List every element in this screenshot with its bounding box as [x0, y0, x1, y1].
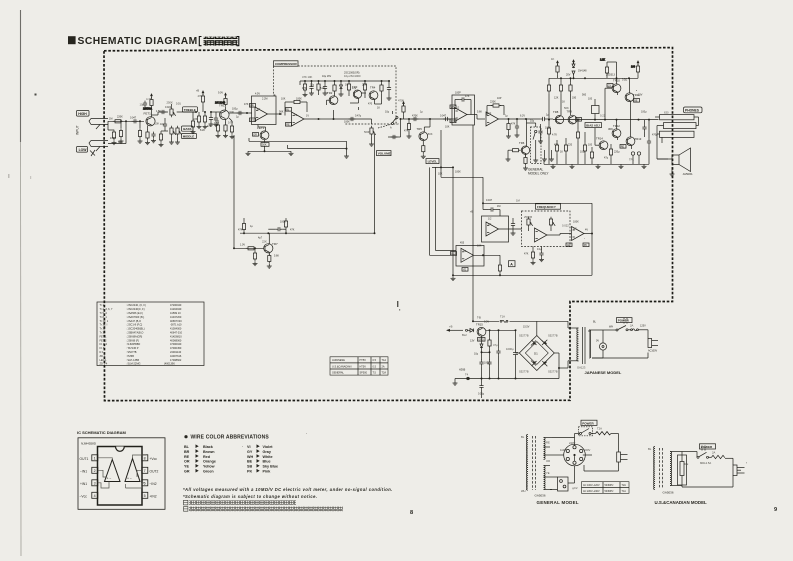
op-amp IC3b: [486, 222, 499, 236]
svg-text:6.2V: 6.2V: [520, 115, 525, 118]
svg-text:+ −: + −: [107, 477, 112, 481]
resistor R13: [216, 120, 221, 138]
wire IC4a out: [547, 234, 571, 236]
svg-text:470: 470: [368, 103, 373, 106]
resistor R29 fb: [487, 104, 504, 116]
japanese note 2: [184, 507, 344, 512]
svg-text:2SK68A: 2SK68A: [143, 108, 152, 111]
svg-text:: 2SC2240(C, F): : 2SC2240(C, F): [126, 307, 145, 311]
svg-text:BL: BL: [648, 447, 652, 451]
color list column 2: [247, 445, 278, 474]
resistor R44: [590, 147, 593, 164]
svg-text:47K: 47K: [244, 103, 249, 106]
svg-text:47000040: 47000040: [170, 342, 182, 346]
svg-text:4.7K: 4.7K: [146, 97, 152, 101]
svg-text:455: 455: [460, 242, 465, 245]
svg-text:ZD 1-4: ZD 1-4: [100, 361, 108, 365]
capacitor C8: [309, 80, 314, 95]
svg-text:5.6K: 5.6K: [477, 111, 482, 114]
resistor R35: [551, 57, 559, 78]
wire bridge left: [516, 352, 520, 354]
svg-text:8.2K: 8.2K: [200, 129, 205, 132]
svg-text:INPUT: INPUT: [76, 125, 80, 135]
wire output bus: [553, 114, 659, 121]
svg-text:1.0V: 1.0V: [240, 244, 245, 247]
transistor TR7: [264, 233, 278, 253]
svg-text:Green: Green: [203, 470, 214, 474]
svg-text:240V: 240V: [569, 441, 575, 445]
wire IC2b out: [499, 118, 541, 120]
svg-text:1K: 1K: [551, 57, 554, 61]
capacitor C9: [323, 80, 328, 95]
svg-text:POWER: POWER: [701, 445, 713, 449]
extra tone cluster parts: [159, 112, 235, 147]
op-amp IC1a: [255, 107, 268, 121]
capacitor C29: [479, 379, 483, 399]
svg-text:2.2K: 2.2K: [600, 59, 605, 62]
svg-text:220K: 220K: [117, 116, 123, 119]
op-amp IC4b: [572, 227, 585, 241]
wire feedback upper: [288, 145, 348, 150]
pin 2: [80, 467, 98, 473]
svg-text:−IN1: −IN1: [80, 469, 87, 473]
svg-text:WIRE COLOR ABBREVIATIONS: WIRE COLOR ABBREVIATIONS: [191, 435, 270, 441]
svg-text:1M: 1M: [109, 118, 112, 121]
svg-text:220μ: 220μ: [614, 151, 620, 154]
pot VR7 middle: [175, 126, 182, 144]
resistor R11 collector: [224, 92, 227, 110]
svg-text:S5277B: S5277B: [548, 334, 558, 338]
svg-text:LEVEL: LEVEL: [428, 160, 438, 164]
svg-text:MIDDLE: MIDDLE: [183, 135, 195, 139]
pin label: [450, 119, 456, 123]
svg-text:U.S.&CANADIAN MODEL: U.S.&CANADIAN MODEL: [655, 500, 708, 505]
transistor TR2: [327, 91, 338, 105]
svg-text:1/2: 1/2: [257, 107, 261, 111]
svg-text:: SLM-22MG: : SLM-22MG: [126, 361, 140, 365]
svg-text:8: 8: [410, 510, 413, 516]
transistor TR12: [608, 124, 621, 138]
taps net: [544, 438, 553, 490]
voltage selector VS1: [552, 438, 592, 466]
pin 8: [142, 455, 157, 461]
wire lower chain: [595, 119, 632, 149]
label 50K box: [261, 143, 269, 147]
resistor R31: [506, 149, 521, 162]
heading: [184, 435, 269, 441]
op-amp IC3a box: [456, 246, 484, 267]
wire reg out: [486, 329, 517, 331]
svg-text:0.022: 0.022: [165, 106, 172, 109]
svg-text:*Schematic diagram is subject: *Schematic diagram is subject to change …: [183, 494, 317, 499]
capacitor C21 input: [540, 117, 553, 121]
resistor R42: [576, 119, 579, 165]
svg-text:1/2: 1/2: [573, 227, 577, 231]
junction: [125, 120, 127, 122]
bridge rectifier D5: [519, 334, 558, 374]
svg-text:FET1: FET1: [144, 112, 152, 116]
resistor R8: [197, 112, 202, 129]
pot VR1 treble: [167, 101, 176, 118]
resistor R14 feedback: [285, 100, 307, 115]
dust specks: [8, 90, 747, 463]
capacitor C19: [539, 247, 544, 262]
label BIAS ADJ: [585, 123, 602, 128]
svg-text:YE: YE: [463, 268, 467, 271]
capacitor C27: [493, 330, 501, 378]
transformer T3 primary coil: [648, 447, 655, 490]
svg-text:RE: RE: [546, 441, 550, 445]
svg-text:5.6K: 5.6K: [274, 255, 279, 258]
transistor FET1: [144, 112, 160, 126]
svg-text:◎F2: ◎F2: [572, 486, 578, 490]
node A: [509, 261, 516, 267]
wire osc collector rail: [240, 232, 376, 234]
svg-text:D1: D1: [534, 352, 538, 356]
internal wires: [98, 455, 146, 488]
svg-text:3: 3: [94, 482, 96, 486]
outer box: [78, 438, 165, 510]
svg-text:TR14: TR14: [596, 137, 603, 141]
svg-text:17008602: 17008602: [170, 358, 182, 362]
resistor R36: [547, 78, 550, 119]
svg-text:OUT1: OUT1: [80, 457, 89, 461]
capacitor C13: [391, 135, 398, 139]
svg-text:40068060: 40068060: [170, 338, 182, 342]
arrows col 1: [196, 444, 199, 472]
capacitor C18: [482, 202, 500, 216]
svg-text:Gray: Gray: [263, 450, 272, 454]
wire trem depth net: [233, 135, 264, 249]
svg-text:0.5Ω: 0.5Ω: [622, 79, 627, 82]
pot assembly dashed box: [522, 211, 571, 247]
pin 6: [142, 480, 157, 486]
arrows col 2: [257, 444, 260, 472]
capacitor C15: [443, 117, 450, 121]
resistor R10: [198, 90, 205, 112]
svg-text:AC100V: AC100V: [648, 350, 657, 353]
resistor R32: [523, 154, 528, 170]
svg-text:47K: 47K: [404, 130, 409, 133]
svg-text:100K: 100K: [573, 221, 579, 224]
svg-text:0.7V: 0.7V: [228, 122, 233, 125]
pin label: [451, 252, 457, 256]
svg-text:T2A: T2A: [597, 427, 602, 431]
svg-text:41047200: 41047200: [170, 315, 182, 319]
ground row: [542, 150, 554, 161]
svg-text:Pink: Pink: [263, 470, 272, 474]
op-amp B triangle: [125, 459, 140, 482]
svg-text:47K: 47K: [302, 87, 307, 90]
svg-text:47K: 47K: [511, 123, 516, 126]
svg-text:9: 9: [774, 507, 777, 513]
svg-text:: NJM4558D: : NJM4558D: [126, 342, 140, 346]
svg-text:12K: 12K: [554, 97, 559, 100]
svg-text:TR6: TR6: [519, 141, 525, 145]
svg-text:RE: RE: [286, 123, 290, 126]
label POWER: [581, 420, 597, 425]
ground rail bottom: [544, 160, 649, 169]
svg-text:10K: 10K: [477, 245, 482, 248]
wire bridge right loop: [554, 353, 559, 379]
svg-text:100P: 100P: [455, 92, 461, 95]
svg-text:BR: BR: [250, 104, 254, 107]
label COMPRESSOR: [274, 61, 299, 66]
capacitor C16 fb: [455, 97, 471, 114]
svg-text:U.S.&CANADIAN: U.S.&CANADIAN: [332, 365, 352, 368]
wire main line to IC2: [388, 118, 452, 137]
svg-text:WH: WH: [451, 106, 455, 109]
wire IC1a out: [268, 113, 283, 115]
svg-text:2: 2: [94, 469, 96, 473]
jack J3 phones: [655, 110, 699, 137]
svg-text:NJM4558D: NJM4558D: [81, 442, 97, 446]
svg-text:0.022: 0.022: [562, 224, 569, 228]
resistor R39: [547, 119, 550, 165]
value text: [143, 59, 636, 111]
svg-text:AC 220V~240V: AC 220V~240V: [583, 490, 600, 493]
pin label: [250, 118, 256, 122]
svg-text:YE: YE: [546, 471, 550, 475]
svg-text:1000μ: 1000μ: [506, 347, 514, 351]
resistor R23: [284, 218, 287, 234]
svg-text:500K: 500K: [364, 130, 370, 134]
svg-text:15.5V: 15.5V: [523, 326, 530, 329]
svg-text:White: White: [263, 455, 273, 459]
svg-text:OUT2: OUT2: [150, 469, 159, 473]
svg-text:Brown: Brown: [203, 450, 215, 454]
resistor R2: [112, 130, 117, 145]
wire volume wiper down: [374, 134, 376, 233]
capacitor C6: [209, 111, 214, 126]
resistor R40: [555, 140, 558, 164]
svg-text:: 2SK68A(GR): : 2SK68A(GR): [126, 334, 142, 338]
capacitor C12: [268, 227, 286, 233]
resistor R46: [488, 330, 491, 353]
svg-text:50K: 50K: [428, 132, 433, 136]
svg-text:Tr 2, 3, 6, 7: Tr 2, 3, 6, 7: [100, 307, 114, 311]
svg-text:1/2: 1/2: [488, 111, 492, 115]
svg-text:PK: PK: [247, 470, 252, 474]
svg-text:: SLP-135B: : SLP-135B: [126, 358, 139, 362]
svg-text:10K: 10K: [281, 98, 286, 101]
svg-text:41K06810: 41K06810: [170, 334, 182, 338]
svg-text:LED 1: LED 1: [100, 358, 108, 362]
svg-text:(4001390: (4001390: [164, 361, 175, 365]
svg-text:COMPRESSOR: COMPRESSOR: [275, 62, 298, 66]
svg-text:0.01: 0.01: [176, 103, 181, 106]
svg-text:100K: 100K: [545, 127, 551, 130]
svg-text:OR: OR: [253, 133, 257, 136]
svg-text:47K: 47K: [238, 229, 243, 232]
resistor R33: [498, 263, 501, 277]
pin label: [253, 133, 259, 137]
svg-text:10K: 10K: [438, 173, 443, 176]
transistor TR13: [620, 137, 642, 149]
resistor R26: [398, 99, 405, 120]
svg-text:470μ: 470μ: [652, 134, 658, 137]
svg-text:OR: OR: [184, 460, 190, 464]
fuse F2: [630, 324, 638, 331]
switch S4: [575, 427, 596, 438]
op-amp IC1a box: [252, 96, 277, 125]
svg-text:ZD 1: ZD 1: [100, 354, 106, 358]
svg-text:JAPANESE MODEL: JAPANESE MODEL: [585, 370, 622, 375]
transistor TR1: [219, 104, 234, 120]
resistor R15: [303, 80, 308, 97]
svg-text:Tr 12: Tr 12: [100, 327, 106, 331]
svg-text:BL2: BL2: [462, 333, 467, 337]
capacitor C26: [487, 360, 491, 379]
transformer T2 secondary coils: [544, 438, 546, 490]
svg-text:50/60Hz: 50/60Hz: [605, 484, 615, 487]
ground rail compressor: [246, 150, 294, 155]
svg-text:RE: RE: [621, 145, 625, 148]
wire fuse line: [472, 320, 537, 335]
svg-text:10K: 10K: [445, 126, 450, 129]
wire to TR1: [211, 111, 220, 113]
svg-text:FET 2: FET 2: [100, 338, 107, 342]
svg-text:100: 100: [588, 144, 593, 147]
svg-text:470K: 470K: [412, 115, 418, 118]
svg-text:100μ: 100μ: [232, 108, 238, 111]
color list column 1: [184, 445, 216, 474]
svg-text:22K: 22K: [193, 118, 198, 121]
resistor R50: [636, 60, 639, 78]
svg-text:1K: 1K: [560, 151, 563, 154]
op-amp IC2a: [455, 106, 468, 122]
svg-text:22K: 22K: [262, 240, 267, 244]
resistor R17: [333, 80, 336, 96]
transistor TR14: [596, 137, 608, 150]
long feedback wire: [249, 138, 349, 158]
svg-text:220: 220: [568, 144, 573, 147]
jack J1 HIGH label: [77, 111, 90, 117]
transformer T1 (japanese): [537, 321, 591, 369]
svg-text:50/60Hz: 50/60Hz: [605, 490, 615, 493]
transistor TR8 pre-driver: [553, 110, 564, 124]
label TREBLE: [183, 107, 198, 112]
resistor R22: [242, 218, 245, 233]
svg-text:1N4148: 1N4148: [578, 70, 587, 73]
svg-text:Sky Blue: Sky Blue: [263, 465, 279, 469]
pin 1: [80, 455, 98, 461]
svg-text:FET 1: FET 1: [100, 334, 107, 338]
svg-text:0V: 0V: [596, 340, 599, 343]
resistor R1: [113, 120, 123, 123]
resistor R4: [138, 120, 143, 143]
wire IC4b out: [584, 233, 593, 235]
transistor TR3: [352, 85, 362, 98]
svg-text:HIGH: HIGH: [78, 112, 87, 116]
wire detect to FET2 gate: [358, 107, 360, 110]
svg-text:SB: SB: [247, 465, 252, 469]
fuse F1: [500, 315, 508, 323]
pot VR6: [549, 217, 555, 231]
plug P3: [682, 458, 745, 487]
svg-text:40667V20: 40667V20: [170, 319, 182, 323]
svg-text:47μ: 47μ: [493, 343, 498, 347]
svg-text:68K: 68K: [118, 141, 123, 144]
junction net below level: [432, 166, 454, 168]
wire level tap: [441, 130, 483, 177]
svg-text:BE: BE: [634, 99, 638, 102]
svg-text:473: 473: [207, 125, 212, 128]
op-amp IC1b: [292, 112, 305, 126]
label MIDDLE: [182, 133, 197, 138]
pin label: [450, 105, 456, 109]
capacitor C28 main filter: [506, 330, 518, 378]
svg-text:41599 10: 41599 10: [170, 311, 181, 315]
jack J2 symbol: [89, 141, 108, 157]
svg-text:MDL2.5A: MDL2.5A: [700, 461, 711, 465]
diode D6: [465, 373, 469, 380]
transformer T3 secondary: [670, 452, 672, 486]
plug P1: [592, 330, 658, 358]
resistor R41: [564, 138, 567, 164]
pin 4: [80, 492, 98, 498]
svg-text:GY: GY: [247, 450, 253, 454]
transformer T2 primary coil: [521, 435, 528, 494]
wire FET2 net: [258, 125, 266, 152]
svg-text:2SD313: 2SD313: [606, 74, 615, 77]
svg-text:BL2: BL2: [451, 252, 456, 255]
switch S5: [697, 446, 712, 459]
ground: [453, 379, 458, 386]
svg-text:47000450: 47000450: [170, 346, 182, 350]
svg-text:330: 330: [572, 97, 577, 100]
svg-text:HZ6B: HZ6B: [459, 369, 466, 372]
svg-text:TR7: TR7: [272, 242, 278, 246]
svg-text:-0071 b10: -0071 b10: [170, 323, 182, 327]
svg-text:22K: 22K: [362, 84, 367, 87]
op-amp A triangle: [105, 460, 121, 482]
voltage selector: [589, 330, 607, 358]
svg-text:T1A: T1A: [500, 315, 505, 319]
svg-text:10Ω: 10Ω: [580, 151, 585, 154]
svg-text:10μ: 10μ: [310, 84, 315, 87]
svg-text:4: 4: [94, 494, 96, 498]
svg-text:100: 100: [588, 98, 593, 101]
svg-text:47K: 47K: [290, 229, 295, 232]
svg-text:+B: +B: [449, 325, 453, 329]
bias block: [592, 99, 600, 121]
svg-text:T4: T4: [465, 373, 469, 377]
svg-text:: 1SC2040B(BL): : 1SC2040B(BL): [126, 327, 145, 331]
transistor TR5: [417, 127, 433, 141]
resistor R12 emitter: [223, 119, 228, 138]
svg-text:47K: 47K: [554, 144, 559, 147]
label FREQUENCY: [536, 204, 561, 209]
svg-text:Black: Black: [203, 445, 214, 449]
svg-text:13V: 13V: [470, 340, 475, 343]
wire osc loop top: [452, 177, 592, 276]
wire signal to volume: [334, 119, 372, 124]
capacitor C30: [214, 112, 219, 127]
svg-text:VOLUME: VOLUME: [378, 152, 391, 156]
capacitor C23: [647, 120, 651, 165]
svg-text:+B: +B: [196, 90, 199, 93]
svg-text:+B: +B: [470, 211, 473, 214]
wire FET1 out: [152, 112, 169, 115]
svg-text:10K: 10K: [155, 122, 160, 126]
svg-text:Red: Red: [203, 455, 211, 459]
svg-text:: HZ6B: : HZ6B: [126, 354, 134, 358]
svg-text:: 2SK68 (F): : 2SK68 (F): [126, 338, 139, 342]
pin label: [583, 243, 589, 247]
svg-text:100: 100: [631, 66, 636, 69]
svg-text:2A: 2A: [382, 365, 385, 368]
